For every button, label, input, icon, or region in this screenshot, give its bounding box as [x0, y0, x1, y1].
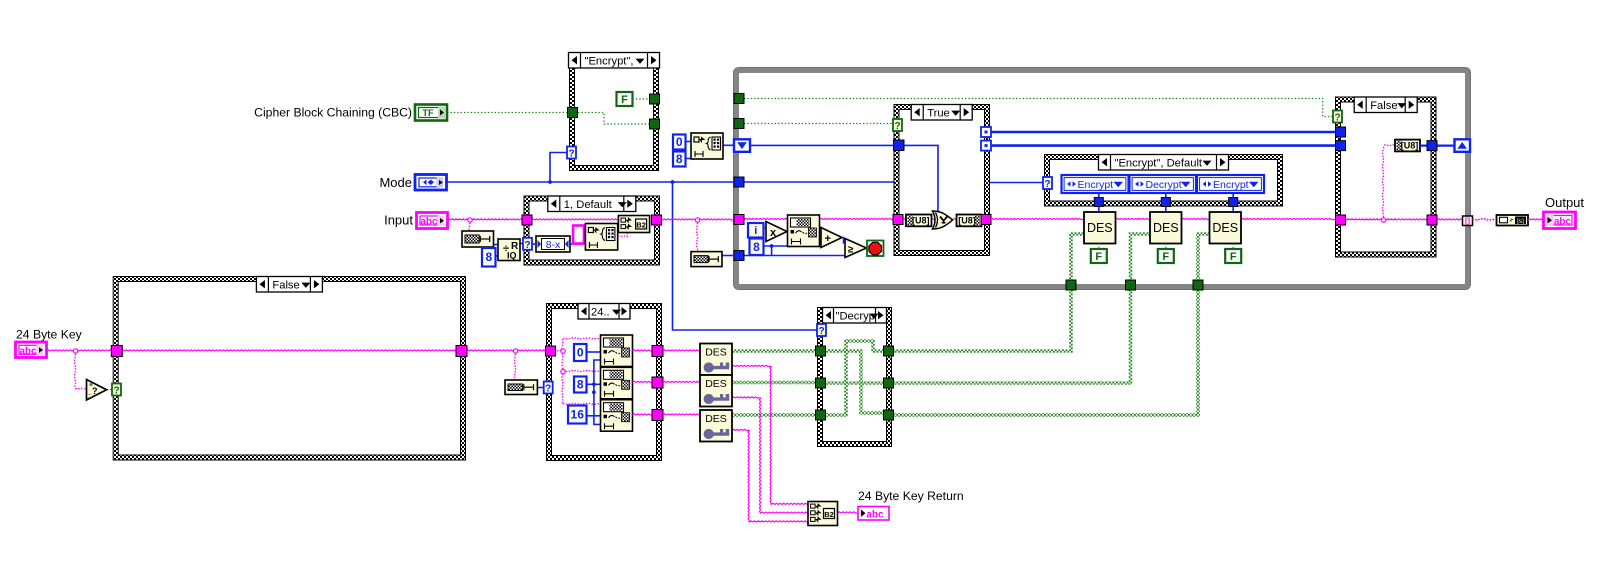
wire Input branch to string-length [469, 220, 470, 231]
wire const-8 to quotient [495, 255, 498, 257]
svg-text:DES: DES [1212, 221, 1238, 235]
node byte-array-to-string-2 [1395, 140, 1420, 152]
svg-text:B2: B2 [824, 510, 834, 519]
svg-text:F: F [1162, 251, 1169, 263]
tunnel CBC in [568, 108, 578, 118]
wire subset1 out [633, 350, 653, 351]
svg-text:?: ? [818, 326, 824, 337]
subVI DES-key-1 [700, 344, 732, 376]
wire length to compare [744, 255, 845, 257]
wire string DES1 to DES2 [1116, 218, 1150, 219]
constant 16 (offset3) [568, 406, 587, 424]
selector tunnel True-case [893, 119, 902, 132]
case structure Encrypt (CBC select) [569, 52, 660, 171]
svg-text:?: ? [92, 386, 98, 396]
tunnel array in1 (False) [1336, 127, 1346, 137]
wire key2 return [732, 397, 808, 513]
wire key to subset1 [563, 338, 600, 339]
wire 24-Byte-Key to False-case [47, 350, 113, 351]
wire key2 to DES-key2 [663, 381, 700, 382]
wire array row1 to False-case [991, 131, 1335, 134]
svg-text:DES: DES [705, 347, 727, 359]
node string-length-1 [462, 231, 494, 247]
wire 8-x to init-array-2 [570, 243, 585, 245]
wire F3 to DES3 [1232, 244, 1234, 250]
label Mode [379, 175, 412, 190]
svg-text:24 Byte Key: 24 Byte Key [16, 328, 83, 342]
wire 8 to subset1b [594, 360, 600, 384]
node concatenate-strings-1 [618, 216, 649, 233]
wire string-length-2 to loop tunnel [722, 255, 734, 257]
constant 0 (IV) [673, 135, 686, 150]
node Empty-String? check [87, 380, 107, 401]
tunnel op1 [1094, 198, 1103, 207]
wire F2 to DES2 [1165, 244, 1167, 250]
svg-text:"Encrypt", Default: "Encrypt", Default [1115, 157, 1203, 169]
tunnel array in2 (False) [1336, 141, 1346, 151]
svg-text:DES: DES [1153, 221, 1179, 235]
node string-to-byte-array [906, 215, 932, 227]
svg-text:[U8]: [U8] [912, 216, 930, 226]
wire key rail vertical [562, 339, 563, 404]
wire op2 to DES2 [1165, 193, 1167, 212]
svg-text:Cipher Block Chaining (CBC): Cipher Block Chaining (CBC) [254, 106, 412, 120]
svg-text:8: 8 [577, 378, 584, 392]
node greater-or-equal [845, 239, 867, 258]
while loop border [734, 68, 1471, 290]
terminal loop-stop [867, 241, 884, 257]
svg-text:24 Byte Key Return: 24 Byte Key Return [858, 489, 964, 503]
wire Mode horizontal [446, 181, 733, 183]
control Mode enum [415, 175, 447, 191]
tunnel op2 [1161, 198, 1170, 207]
tunnel string out (False) [1427, 215, 1437, 225]
tunnel loop bool1 [734, 94, 744, 104]
enum constant op3 Encrypt [1197, 175, 1264, 193]
right shift register [1455, 139, 1471, 152]
svg-text:8: 8 [753, 240, 760, 254]
wire string DES2 to DES3 [1182, 218, 1210, 219]
svg-text:8: 8 [676, 152, 683, 166]
wire key3 up to DES3 [1198, 234, 1210, 280]
junction Input-1 [468, 218, 472, 222]
tunnel input out (1-Default) [652, 215, 662, 225]
svg-text:[U8]: [U8] [1401, 141, 1419, 151]
svg-text:?: ? [113, 386, 119, 397]
wire shift-register data [751, 144, 894, 146]
svg-text:B2: B2 [636, 221, 646, 230]
svg-text:F: F [1230, 251, 1237, 263]
wire key3 to slot1 (decrypt) [824, 341, 885, 415]
svg-text:abc: abc [1554, 217, 1572, 228]
wire boolean inside Encrypt-case [578, 113, 649, 125]
wire key1 to slot3 (decrypt) [824, 351, 885, 415]
node byte-array-to-string-3 [1497, 215, 1529, 226]
svg-text:Output: Output [1545, 195, 1584, 210]
wire string DES3 to False-case [1242, 218, 1336, 219]
label Output [1545, 195, 1584, 210]
wire add to compare [842, 238, 845, 244]
wire F to tunnel [633, 98, 650, 100]
wire init-array to shift-register [723, 144, 734, 146]
svg-text:?: ? [1044, 179, 1050, 190]
svg-text:?: ? [894, 121, 900, 132]
svg-text:::: :: [88, 393, 92, 400]
constant 8 (pad) [482, 248, 496, 267]
case structure False (CBC out) [1335, 97, 1437, 258]
junction string out [1381, 218, 1385, 222]
wire 8 rail [594, 384, 600, 424]
selector tunnel 1-Default [523, 238, 532, 251]
tunnel key2 out [652, 377, 663, 388]
node concatenate-strings-2 [808, 502, 838, 526]
wire key3 to DES-key3 [663, 414, 700, 415]
svg-text:DES: DES [705, 378, 727, 390]
case structure Encrypt-Default (op select) [1044, 154, 1283, 207]
wire key1 out to loop [892, 285, 1071, 351]
tunnel loop Mode [734, 177, 744, 187]
wire key1 to Decrypt-case [732, 349, 817, 353]
selector tunnel False-case-2 [1333, 111, 1342, 124]
wire to Output indicator [1528, 219, 1543, 220]
node string-subset-1 [601, 335, 633, 367]
svg-text:[U8]: [U8] [958, 216, 976, 226]
junction Mode-2 [671, 180, 675, 184]
svg-text:?: ? [524, 240, 530, 251]
svg-text:abc: abc [19, 346, 37, 357]
case structure Decrypt (key order) [817, 307, 892, 447]
wire 1-Default to loop tunnel [659, 219, 734, 220]
junction Mode-1 [548, 180, 552, 184]
svg-text:Input: Input [384, 213, 413, 228]
svg-text:?: ? [545, 384, 551, 395]
wire input inside 1-Default [531, 219, 620, 220]
node add [821, 228, 842, 248]
wire key to subset3 [563, 403, 600, 404]
tunnel sr in (True) [894, 140, 905, 151]
tunnel key1 in (Decrypt) [816, 346, 826, 356]
wire key rail inside 24-case [554, 350, 563, 351]
tunnel sr-feed out (False) [1427, 141, 1437, 151]
svg-text:False: False [1370, 100, 1397, 112]
node byte-array-to-string [957, 215, 982, 227]
junction key-1 [73, 349, 77, 353]
wire string True to DES1 [991, 218, 1084, 219]
wire string branch to byte-array [1382, 144, 1395, 220]
wire output dotted segment [1473, 219, 1497, 220]
node string-length-2 [691, 252, 722, 267]
constant empty string [573, 226, 584, 244]
case structure 1-Default (pad input) [524, 196, 661, 266]
svg-text:Mode: Mode [379, 175, 412, 190]
wire 16 to subset3 [587, 415, 601, 417]
wire quotient to case selector [520, 243, 524, 245]
wire subset3 out [633, 414, 653, 415]
wire boolean row-b in loop [744, 123, 893, 125]
node quotient-remainder [498, 239, 520, 261]
wire key2 up to DES2 [1131, 234, 1151, 280]
tunnel key2 in (Decrypt) [816, 378, 826, 388]
junction Input-2 [695, 218, 699, 222]
svg-text:+: + [825, 233, 831, 245]
wire i to multiply [764, 227, 767, 229]
tunnel out1 default (True) [981, 127, 991, 137]
wire pad to concat [618, 233, 627, 237]
tunnel loop length [734, 251, 744, 261]
wire key2 to Decrypt-case [732, 381, 817, 385]
case structure 24.. (key split) [546, 303, 662, 461]
node string-subset-2 [601, 367, 633, 399]
svg-text:[]: [] [1465, 216, 1470, 225]
tunnel key in (False-case) [111, 346, 122, 357]
constant F (DES1) [1091, 249, 1107, 263]
tunnel key in (24-case) [546, 346, 556, 356]
selector tunnel Encrypt-Default [1043, 177, 1052, 190]
svg-text:?: ? [1334, 113, 1340, 124]
svg-text:abc: abc [866, 510, 884, 521]
wire 8 branch down [771, 246, 773, 256]
constant 0 (offset1) [574, 344, 587, 361]
tunnel key1 out [652, 346, 663, 357]
svg-text:1, Default: 1, Default [564, 199, 613, 211]
subVI DES-1 [1084, 212, 1116, 244]
wire key branch to string-length-3 [514, 351, 515, 380]
wire key2 out to loop [892, 285, 1131, 383]
tunnel loop key1 [1066, 280, 1076, 290]
wire key3 out to loop [892, 285, 1198, 415]
svg-text:TF: TF [423, 108, 434, 118]
tunnel bool out1 [650, 94, 660, 104]
junction key-2 [513, 349, 517, 353]
wire string out of loop [1437, 219, 1463, 220]
svg-text:abc: abc [420, 217, 438, 228]
constant 8 (offset2) [574, 377, 587, 393]
junction 8-rail-1 [592, 382, 596, 386]
constant F (Encrypt-case) [617, 92, 633, 106]
node multiply [766, 222, 787, 242]
wire key1 up to DES1 [1071, 234, 1084, 280]
tunnel loop bool2 [734, 119, 744, 129]
svg-text:True: True [927, 107, 950, 119]
tunnel key1 out (Decrypt) [884, 346, 894, 356]
label 24 Byte Key [16, 328, 83, 342]
svg-text:x: x [770, 227, 777, 239]
svg-text:F: F [621, 94, 628, 106]
tunnel key3 out (Decrypt) [884, 410, 894, 420]
left shift register [734, 139, 750, 152]
svg-text:8: 8 [485, 250, 492, 264]
wire Mode in loop [744, 181, 894, 183]
indicator 24 Byte Key Return [858, 489, 964, 521]
wire empty-string-check result [107, 389, 113, 391]
svg-text:[s]: [s] [1517, 218, 1524, 225]
wire Input to 1-Default tunnel [447, 219, 527, 220]
svg-text:0: 0 [577, 346, 584, 360]
svg-text:0: 0 [676, 135, 683, 149]
subVI DES-key-3 [700, 410, 732, 442]
node 8-x expression [536, 236, 570, 252]
constant F (DES2) [1158, 249, 1174, 263]
selector tunnel Decrypt-case [817, 324, 826, 337]
svg-text:Encrypt: Encrypt [1213, 179, 1249, 191]
node XOR [933, 211, 953, 229]
tunnel loop key3 [1193, 280, 1203, 290]
svg-text:?: ? [568, 149, 574, 160]
tunnel key2 out (Decrypt) [884, 378, 894, 388]
wire 8 to multiply [764, 245, 788, 247]
tunnel out2 default (True) [981, 141, 991, 151]
node initialize-array-1 [691, 133, 723, 159]
tunnel input in (1-Default) [522, 215, 532, 225]
subVI DES-2 [1150, 212, 1182, 244]
wire concatenated key to indicator [838, 512, 858, 513]
svg-text:Decrypt: Decrypt [1146, 179, 1182, 191]
svg-text:DES: DES [1087, 221, 1113, 235]
node string-subset-3 [601, 400, 633, 432]
wire key2 to slot2 (decrypt) [824, 381, 885, 385]
constant 8 (IV) [673, 152, 686, 167]
case structure True (CBC xor) [894, 104, 991, 256]
wire F1 to DES1 [1098, 244, 1100, 250]
svg-text:F: F [1095, 251, 1102, 263]
tunnel bool out2 [650, 119, 660, 129]
junction key rail 2 [561, 369, 565, 373]
tunnel string out (True) [981, 215, 991, 225]
wire key1 return [732, 365, 808, 504]
indicator Output string [1544, 212, 1576, 229]
svg-text:16: 16 [571, 408, 585, 422]
svg-text:"Decryp: "Decryp [836, 310, 875, 322]
wire 8 to subset2 [587, 383, 601, 385]
tunnel loop key2 [1126, 280, 1136, 290]
svg-text:24..: 24.. [591, 306, 610, 318]
svg-text:8-x: 8-x [546, 239, 561, 251]
wire boolean row-a in loop [744, 99, 1334, 117]
tunnel key3 in (Decrypt) [816, 410, 826, 420]
wire key branch to empty-string-check [74, 351, 86, 389]
wire op1 to DES1 [1098, 193, 1100, 212]
svg-text:≥: ≥ [848, 245, 854, 256]
enum constant op2 Decrypt [1130, 175, 1197, 193]
terminal iteration i [748, 223, 764, 238]
selector tunnel Encrypt-case [567, 147, 576, 160]
junction 8-rail-2 [592, 390, 596, 394]
tunnel key3 out [652, 410, 663, 421]
control 24 Byte Key string [16, 342, 47, 358]
constant F (DES3) [1225, 249, 1241, 263]
svg-text:Encrypt: Encrypt [1078, 179, 1114, 191]
svg-text:"Encrypt",: "Encrypt", [585, 55, 634, 67]
svg-text:i: i [754, 225, 757, 237]
subVI DES-3 [1210, 212, 1242, 244]
svg-text:DES: DES [705, 413, 727, 425]
wire string inside True-case [902, 219, 983, 220]
wire key inside False-case [121, 350, 458, 351]
node string-length-3 [505, 380, 537, 395]
wire to sr out [1420, 145, 1455, 147]
junction key rail 1 [561, 349, 565, 353]
tunnel loop input [734, 215, 744, 225]
wire key3 to Decrypt-case [732, 413, 817, 417]
wire op3 to DES3 [1232, 193, 1234, 212]
label Cipher Block Chaining (CBC) [254, 106, 412, 120]
wire Mode branch to Encrypt-case selector [550, 153, 568, 183]
wire boolean CBC to Encrypt-case tunnel [447, 112, 567, 114]
wire string inside False-case [1343, 219, 1430, 220]
wire Mode to Encrypt-Default selector [990, 182, 1044, 184]
wire key to subset2 [563, 370, 600, 371]
selector tunnel 24-case [544, 382, 553, 395]
wire Mode branch down to Decrypt-case selector [673, 182, 819, 330]
selector tunnel False-case [112, 384, 121, 397]
wire key3 return [732, 429, 808, 522]
svg-text:IQ: IQ [507, 251, 517, 261]
wire const-8b to init-array [686, 158, 692, 160]
wire array row2 to False-case [991, 144, 1335, 147]
tunnel op3 [1229, 198, 1238, 207]
control Input string [417, 213, 448, 229]
node initialize-array-2 [585, 224, 617, 251]
wire sr-data inside True [902, 145, 938, 212]
label Input [384, 213, 413, 228]
tunnel string in (False) [1336, 215, 1346, 225]
control CBC boolean TF [415, 105, 447, 121]
wire key1 to DES-key1 [663, 350, 700, 351]
wire const-0 to init-array [686, 141, 692, 143]
wire string-length to quotient [494, 244, 499, 246]
svg-text:False: False [272, 279, 299, 291]
junction 8-block [770, 244, 774, 248]
wire Input branch to string-length-2 [696, 220, 697, 252]
tunnel key out (False-case) [456, 346, 467, 357]
case structure False (key check) [113, 276, 466, 461]
subVI DES-key-2 [700, 375, 732, 407]
wire 0 to subset1 [587, 351, 601, 353]
constant 8 (block) [750, 239, 764, 256]
wire key False-case to 24-case [466, 350, 547, 351]
enum constant op1 Encrypt [1062, 175, 1129, 193]
node string-subset-main [788, 215, 820, 247]
wire string-length-3 to 24-case selector [538, 387, 545, 389]
wire input in loop [744, 218, 893, 219]
wire subset2 out [633, 381, 653, 382]
wire selector to 8-x [532, 243, 537, 245]
tunnel string in (True) [893, 215, 903, 225]
tunnel loop output [1463, 216, 1473, 226]
